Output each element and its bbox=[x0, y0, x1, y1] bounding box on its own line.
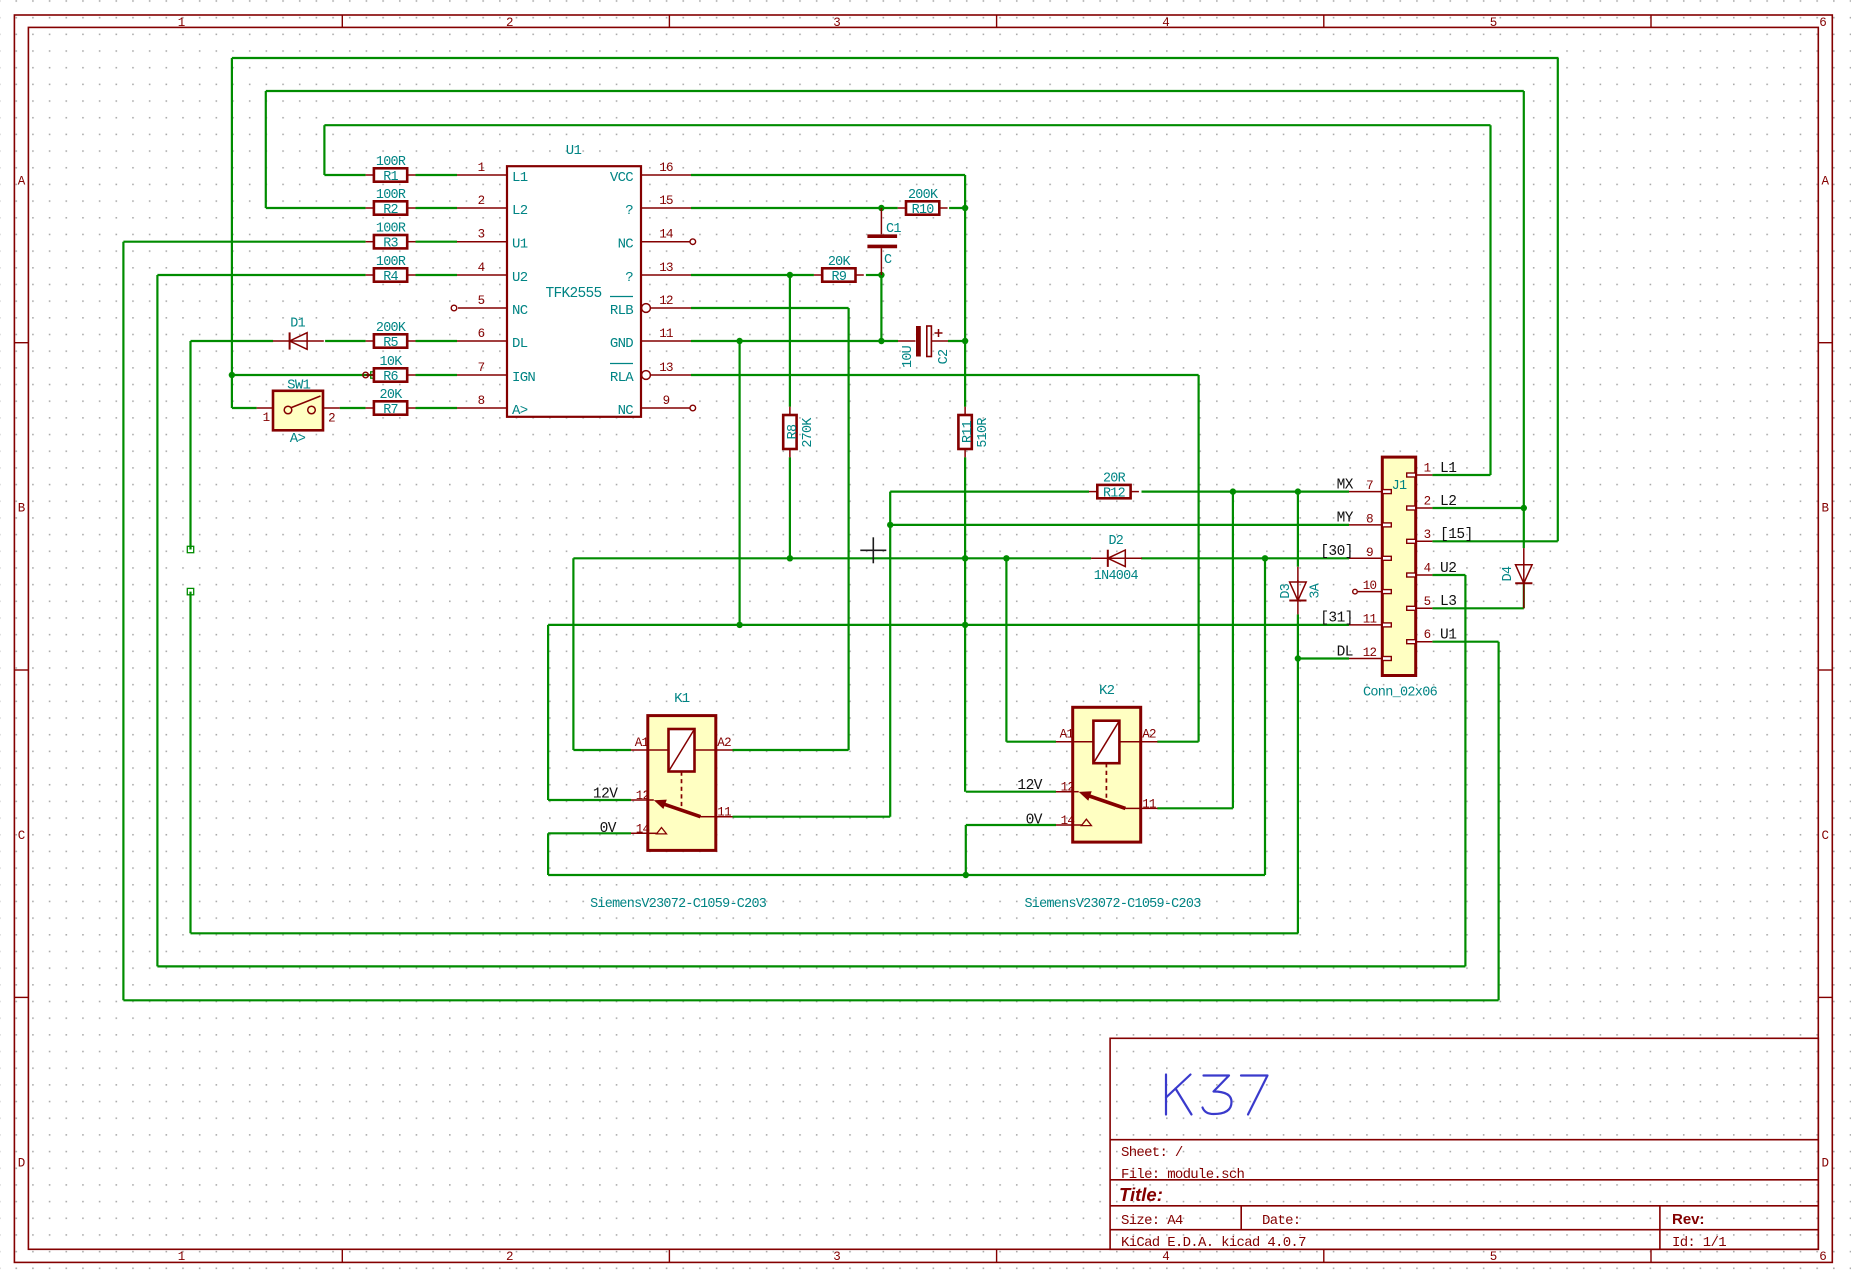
svg-text:12V: 12V bbox=[1017, 778, 1042, 794]
svg-text:A>: A> bbox=[290, 431, 306, 447]
wire vert R8 bottom bbox=[789, 457, 791, 558]
svg-text:14: 14 bbox=[659, 228, 673, 242]
svg-text:16: 16 bbox=[659, 161, 673, 175]
dangling wire end bbox=[371, 372, 377, 378]
svg-text:B: B bbox=[18, 502, 26, 516]
wire MY bbox=[890, 524, 1349, 526]
wire GND to C2 bbox=[691, 340, 898, 342]
svg-text:Sheet: /: Sheet: / bbox=[1121, 1145, 1183, 1161]
svg-text:SW1: SW1 bbox=[287, 378, 310, 394]
resistor R8 bbox=[789, 407, 791, 415]
relay K2 bbox=[1073, 707, 1141, 842]
svg-text:1: 1 bbox=[178, 1250, 186, 1264]
svg-text:7: 7 bbox=[478, 361, 485, 375]
svg-text:200K: 200K bbox=[908, 188, 939, 203]
J1 pin 11 bbox=[1349, 624, 1382, 626]
resistor R6 bbox=[366, 374, 374, 376]
J1 pin 8 bbox=[1349, 524, 1382, 526]
U1 pin 4 U2 bbox=[457, 274, 507, 276]
wire vert 30 to K1.A1 bbox=[572, 558, 574, 750]
wire vert R4 col bbox=[156, 275, 158, 966]
svg-text:File: module.sch: File: module.sch bbox=[1121, 1167, 1245, 1183]
wire vert R9 junction to GND bbox=[880, 275, 882, 341]
svg-text:R5: R5 bbox=[383, 336, 398, 351]
wire DL to J1.12 bbox=[1298, 657, 1349, 659]
junction at 1297.9,658.5 bbox=[1295, 655, 1301, 661]
svg-text:12: 12 bbox=[659, 294, 673, 308]
wire L1 top bbox=[324, 124, 1490, 126]
wire VCC bbox=[691, 174, 965, 176]
svg-text:3A: 3A bbox=[1308, 582, 1323, 598]
svg-text:5: 5 bbox=[1424, 595, 1431, 609]
svg-text:200K: 200K bbox=[376, 321, 407, 336]
svg-text:11: 11 bbox=[659, 327, 673, 341]
resistor R4 bbox=[366, 274, 374, 276]
wire K1.14 bbox=[548, 832, 631, 834]
J1 pin 6 bbox=[1416, 641, 1433, 643]
wire DL bottom bus bbox=[191, 932, 1299, 934]
diode D1 bbox=[273, 340, 324, 342]
svg-text:R9: R9 bbox=[832, 270, 847, 285]
svg-text:2: 2 bbox=[478, 194, 485, 208]
svg-text:K2: K2 bbox=[1099, 683, 1115, 699]
wire MX to R12 bbox=[890, 491, 1089, 493]
svg-text:4: 4 bbox=[1162, 16, 1170, 30]
svg-text:11: 11 bbox=[1142, 797, 1156, 811]
svg-text:3: 3 bbox=[1424, 528, 1431, 542]
wire K1.12 bbox=[548, 799, 631, 801]
wire vert R2 col bbox=[265, 91, 267, 208]
svg-text:U2: U2 bbox=[1440, 561, 1456, 577]
svg-text:11: 11 bbox=[1363, 612, 1377, 626]
U1 pin 1 L1 bbox=[457, 174, 507, 176]
wire vert MX to K2.11 bbox=[1232, 492, 1234, 809]
svg-text:3: 3 bbox=[478, 228, 485, 242]
svg-text:C: C bbox=[18, 829, 26, 843]
svg-text:R10: R10 bbox=[912, 203, 935, 218]
wire R12 to J1.7 bbox=[1142, 491, 1350, 493]
svg-text:4: 4 bbox=[1162, 1250, 1170, 1264]
wire vert net15 col bbox=[1557, 58, 1559, 541]
svg-text:KiCad E.D.A. kicad 4.0.7: KiCad E.D.A. kicad 4.0.7 bbox=[1121, 1235, 1306, 1251]
svg-text:20K: 20K bbox=[828, 255, 852, 270]
D4 pin stubs bbox=[1523, 548, 1525, 565]
wire 0V bus bbox=[548, 874, 1265, 876]
wire net15 top bbox=[232, 57, 1559, 59]
wire 30 row left bbox=[573, 557, 1091, 559]
wire K2.12 bbox=[966, 791, 1056, 793]
wire vert to R8 top bbox=[789, 275, 791, 407]
junction at 231.9,375 bbox=[229, 372, 235, 378]
wire vert GND to 31 row bbox=[738, 341, 740, 625]
J1 pin 4 bbox=[1416, 574, 1433, 576]
wire K2.A1 bbox=[1006, 741, 1056, 743]
diode D3 bbox=[1297, 580, 1299, 601]
wire R7 to U1.8 bbox=[416, 407, 458, 409]
wire vert VCC-R10-GND-R11 bbox=[964, 175, 966, 407]
wire vert 30 to K2.A1 bbox=[1005, 558, 1007, 741]
U1 pin 7 IGN bbox=[457, 374, 507, 376]
svg-text:1: 1 bbox=[178, 16, 186, 30]
svg-text:DL: DL bbox=[1337, 644, 1353, 660]
wire vert R3 col bbox=[122, 242, 124, 1001]
K1 coil bbox=[669, 729, 695, 772]
svg-text:270K: 270K bbox=[801, 417, 816, 448]
svg-text:6: 6 bbox=[1819, 16, 1827, 30]
svg-text:12V: 12V bbox=[593, 786, 618, 802]
svg-text:5: 5 bbox=[1490, 1250, 1498, 1264]
svg-text:8: 8 bbox=[1366, 512, 1373, 526]
wire vert R11 to K2.12 bbox=[964, 457, 966, 791]
svg-text:Id: 1/1: Id: 1/1 bbox=[1672, 1235, 1726, 1251]
svg-text:4: 4 bbox=[1424, 562, 1431, 576]
svg-text:100R: 100R bbox=[376, 255, 406, 270]
svg-text:3: 3 bbox=[833, 16, 841, 30]
svg-text:10U: 10U bbox=[901, 345, 916, 368]
svg-text:SiemensV23072-C1059-C203: SiemensV23072-C1059-C203 bbox=[590, 897, 767, 912]
U1 pin 5 NC bbox=[458, 307, 507, 309]
svg-text:15: 15 bbox=[659, 194, 673, 208]
junction at 739.6,624.9 bbox=[736, 622, 742, 628]
wire vert R1 col bbox=[323, 125, 325, 175]
crosshair marker bbox=[860, 537, 886, 563]
D3 pin stubs bbox=[1297, 567, 1299, 582]
svg-text:L1: L1 bbox=[1440, 461, 1456, 477]
wire R1 to U1.1 bbox=[416, 174, 458, 176]
wire vert RLA to K2.A2 bbox=[1197, 375, 1199, 742]
diode D2 bbox=[1091, 557, 1142, 559]
svg-text:100R: 100R bbox=[376, 222, 406, 237]
wire R4 to U1.4 bbox=[416, 274, 458, 276]
wire K1.A2 bbox=[733, 749, 849, 751]
U1 pin 11 GND bbox=[641, 340, 691, 342]
wire 30 row right bbox=[1141, 557, 1349, 559]
wire vert MX to D3 bbox=[1297, 492, 1299, 567]
junction at 789.9,558.3 bbox=[787, 555, 793, 561]
svg-text:C2: C2 bbox=[937, 349, 952, 364]
svg-text:2: 2 bbox=[506, 1250, 514, 1264]
wire L1 to J1.1 bbox=[1432, 474, 1490, 476]
svg-text:9: 9 bbox=[663, 394, 670, 408]
resistor R3 bbox=[366, 241, 374, 243]
svg-text:R4: R4 bbox=[383, 270, 398, 285]
svg-text:D4: D4 bbox=[1501, 566, 1516, 581]
resistor R2 bbox=[366, 207, 374, 209]
svg-text:3: 3 bbox=[833, 1250, 841, 1264]
svg-text:5: 5 bbox=[1490, 16, 1498, 30]
wire U1net to J1.6 bbox=[1432, 641, 1498, 643]
wire vert K1.14 to 0V bbox=[547, 833, 549, 875]
junction at 881.4,208 bbox=[878, 205, 884, 211]
wire R2 to U1.2 bbox=[416, 207, 458, 209]
junction at 1006.4,558.3 bbox=[1003, 555, 1009, 561]
svg-text:R2: R2 bbox=[383, 203, 398, 218]
svg-text:7: 7 bbox=[1366, 479, 1373, 493]
svg-text:R11: R11 bbox=[961, 420, 976, 443]
junction at 881.4,275 bbox=[878, 272, 884, 278]
op-amp / IC U1 TFK2555 bbox=[507, 166, 641, 417]
wire 15net to J1.3 bbox=[1432, 540, 1557, 542]
svg-text:C: C bbox=[884, 253, 892, 268]
capacitor C1 bbox=[880, 208, 882, 234]
svg-text:20R: 20R bbox=[1103, 472, 1126, 487]
svg-text:R3: R3 bbox=[383, 237, 398, 252]
svg-text:13: 13 bbox=[659, 361, 673, 375]
J1 pin 1 bbox=[1416, 474, 1433, 476]
wire K2.A2 bbox=[1157, 741, 1198, 743]
svg-text:NC: NC bbox=[618, 237, 634, 253]
J1 pin 12 bbox=[1349, 658, 1382, 660]
svg-text:SiemensV23072-C1059-C203: SiemensV23072-C1059-C203 bbox=[1024, 897, 1201, 912]
wire RLB bbox=[691, 307, 849, 309]
wire L3 to J1.5 bbox=[1432, 607, 1523, 609]
svg-text:10K: 10K bbox=[380, 355, 404, 370]
wire K1.11 bbox=[733, 816, 891, 818]
svg-text:B: B bbox=[1822, 502, 1830, 516]
wire vert D1 col upper bbox=[189, 341, 191, 550]
resistor R10 bbox=[898, 207, 906, 209]
svg-text:L1: L1 bbox=[512, 170, 528, 186]
svg-text:D3: D3 bbox=[1279, 583, 1294, 598]
svg-text:100R: 100R bbox=[376, 188, 406, 203]
wire vert U2 col bbox=[1464, 575, 1466, 966]
wire U1.15 to R10 bbox=[691, 207, 898, 209]
wire 31 row bbox=[548, 624, 1349, 626]
wire to SW1.1 bbox=[232, 407, 257, 409]
title text K37 bbox=[1166, 1075, 1268, 1115]
wire D1 to R5 bbox=[325, 340, 366, 342]
wire U2 to J1.4 bbox=[1432, 574, 1465, 576]
svg-text:GND: GND bbox=[610, 336, 633, 352]
resistor R7 bbox=[366, 407, 374, 409]
resistor R11 bbox=[964, 407, 966, 415]
diode D4 bbox=[1523, 563, 1525, 584]
svg-text:100R: 100R bbox=[376, 155, 406, 170]
J1 pin 9 bbox=[1349, 557, 1382, 559]
wire K1.A1 bbox=[573, 749, 631, 751]
U1 pin 15 ? bbox=[641, 207, 691, 209]
wire U2 bottom bus bbox=[157, 965, 1465, 967]
svg-text:9: 9 bbox=[1366, 546, 1373, 560]
junction at 789.9,275 bbox=[787, 272, 793, 278]
wire K2.11 bbox=[1157, 807, 1233, 809]
R6 dangling pin circle bbox=[363, 372, 369, 378]
wire DL to D1 bbox=[191, 340, 274, 342]
svg-text:VCC: VCC bbox=[610, 170, 633, 186]
wire vert L1 col bbox=[1489, 125, 1491, 475]
svg-text:8: 8 bbox=[478, 394, 485, 408]
wire R3 to U1.3 bbox=[416, 241, 458, 243]
wire R2 left bbox=[266, 207, 366, 209]
wire vert D3 to DL col bbox=[1297, 614, 1299, 933]
svg-text:1N4004: 1N4004 bbox=[1094, 569, 1139, 584]
svg-text:A1: A1 bbox=[635, 736, 649, 750]
svg-text:L2: L2 bbox=[512, 203, 528, 219]
wire R4 left bbox=[157, 274, 365, 276]
svg-text:12: 12 bbox=[1363, 646, 1377, 660]
svg-text:1: 1 bbox=[1424, 462, 1431, 476]
junction at 1523.8,508 bbox=[1521, 505, 1527, 511]
svg-text:Rev:: Rev: bbox=[1672, 1211, 1705, 1228]
wire vert 31 to K1.12 bbox=[547, 625, 549, 800]
svg-text:NC: NC bbox=[618, 403, 634, 419]
J1 pin 3 bbox=[1416, 540, 1433, 542]
svg-text:[30]: [30] bbox=[1320, 544, 1353, 560]
svg-text:D1: D1 bbox=[290, 317, 305, 332]
svg-text:NC: NC bbox=[512, 303, 528, 319]
junction at 965.1,208 bbox=[962, 205, 968, 211]
U1 pin 9 NC bbox=[641, 407, 690, 409]
resistor R12 bbox=[1089, 491, 1097, 493]
wire R6 left bbox=[232, 374, 374, 376]
wire RLA bbox=[691, 374, 1199, 376]
K1 armature bbox=[663, 804, 701, 817]
junction at 1265,558.3 bbox=[1262, 555, 1268, 561]
svg-text:510R: 510R bbox=[976, 418, 991, 448]
svg-text:R8: R8 bbox=[786, 424, 801, 439]
svg-text:1: 1 bbox=[263, 411, 270, 425]
U1 pin 13 RLA bbox=[642, 371, 651, 380]
U1 pin 3 U1 bbox=[457, 241, 507, 243]
wire SW1.2 to R7 bbox=[340, 407, 366, 409]
svg-text:R7: R7 bbox=[383, 403, 398, 418]
resistor R1 bbox=[366, 174, 374, 176]
U1 pin 13 ? bbox=[641, 274, 691, 276]
svg-text:L2: L2 bbox=[1440, 494, 1456, 510]
svg-text:TFK2555: TFK2555 bbox=[545, 286, 601, 302]
K2 armature bbox=[1088, 796, 1126, 809]
U1 pin 8 A> bbox=[457, 407, 507, 409]
wire R6 to U1.7 bbox=[416, 374, 458, 376]
svg-text:0V: 0V bbox=[600, 821, 617, 837]
svg-text:U1: U1 bbox=[566, 143, 582, 159]
svg-text:?: ? bbox=[625, 270, 633, 286]
wire vert U1net col bbox=[1497, 642, 1499, 1001]
wire vert K1.11 col bbox=[889, 492, 891, 817]
svg-text:A2: A2 bbox=[1142, 728, 1156, 742]
wire L2 top bbox=[266, 90, 1524, 92]
svg-text:U1: U1 bbox=[1440, 628, 1456, 644]
svg-text:2: 2 bbox=[506, 16, 514, 30]
svg-text:20K: 20K bbox=[380, 388, 404, 403]
wire vert 30 to 0V bus bbox=[1264, 558, 1266, 875]
svg-text:L3: L3 bbox=[1440, 594, 1456, 610]
svg-text:A: A bbox=[18, 175, 26, 189]
svg-text:RLA: RLA bbox=[610, 370, 634, 386]
svg-text:R12: R12 bbox=[1103, 487, 1126, 502]
svg-text:MX: MX bbox=[1337, 477, 1354, 493]
U1 pin 2 L2 bbox=[457, 207, 507, 209]
svg-text:J1: J1 bbox=[1392, 479, 1407, 494]
dangling wire end bbox=[187, 546, 193, 552]
svg-text:Date:: Date: bbox=[1262, 1213, 1301, 1229]
svg-text:A1: A1 bbox=[1060, 728, 1074, 742]
svg-text:DL: DL bbox=[512, 336, 528, 352]
wire K2.14 bbox=[966, 824, 1056, 826]
wire R5 to U1.6 bbox=[416, 340, 458, 342]
svg-text:4: 4 bbox=[478, 261, 485, 275]
svg-text:6: 6 bbox=[1819, 1250, 1827, 1264]
svg-text:C: C bbox=[1822, 829, 1830, 843]
title block bbox=[1110, 1038, 1818, 1249]
relay K1 bbox=[648, 716, 716, 851]
svg-text:K1: K1 bbox=[674, 691, 690, 707]
connector J1 Conn_02x06 bbox=[1382, 457, 1415, 675]
svg-text:13: 13 bbox=[659, 261, 673, 275]
svg-text:12: 12 bbox=[1061, 781, 1075, 795]
wire R10 right bbox=[949, 207, 965, 209]
J1 pin 7 bbox=[1349, 491, 1382, 493]
J1 pin 10 bbox=[1358, 591, 1382, 593]
junction at 1297.9,491.6 bbox=[1295, 488, 1301, 494]
junction at 965.8,875 bbox=[963, 872, 969, 878]
wire vert L2 to D4 bbox=[1523, 91, 1525, 548]
svg-text:Title:: Title: bbox=[1119, 1184, 1163, 1205]
svg-text:R1: R1 bbox=[383, 170, 398, 185]
svg-text:R6: R6 bbox=[383, 370, 398, 385]
wire vert RLB to K1.A2 bbox=[847, 308, 849, 750]
wire vert SW1 col bbox=[231, 58, 233, 408]
wire vert D4 to L3 bbox=[1523, 583, 1525, 608]
U1 pin 12 RLB bbox=[642, 304, 651, 313]
svg-text:[15]: [15] bbox=[1440, 527, 1473, 543]
U1 pin 16 VCC bbox=[641, 174, 691, 176]
J1 pin 5 bbox=[1416, 607, 1433, 609]
svg-text:[31]: [31] bbox=[1320, 611, 1353, 627]
svg-text:D: D bbox=[1822, 1156, 1830, 1170]
svg-text:11: 11 bbox=[717, 806, 731, 820]
svg-text:6: 6 bbox=[478, 327, 485, 341]
junction at 965.1,558.3 bbox=[962, 555, 968, 561]
wire R3 left bbox=[123, 241, 365, 243]
svg-text:5: 5 bbox=[478, 294, 485, 308]
svg-text:RLB: RLB bbox=[610, 303, 633, 319]
svg-text:D: D bbox=[18, 1156, 26, 1170]
junction at 739.6,341 bbox=[736, 338, 742, 344]
svg-text:10: 10 bbox=[1363, 579, 1377, 593]
svg-text:0V: 0V bbox=[1026, 813, 1043, 829]
U1 pin 14 NC bbox=[641, 241, 690, 243]
wire vert K2.14 to 0V bbox=[965, 825, 967, 875]
svg-text:U2: U2 bbox=[512, 270, 528, 286]
wire L2 to J1.2 bbox=[1432, 507, 1523, 509]
wire U1.13 to R9 bbox=[691, 274, 814, 276]
capacitor C2 polarized bbox=[898, 340, 916, 342]
junction at 890.2,524.9 bbox=[887, 522, 893, 528]
svg-text:2: 2 bbox=[328, 412, 335, 426]
svg-text:14: 14 bbox=[636, 822, 650, 836]
wire C2 right bbox=[948, 340, 965, 342]
resistor R9 bbox=[814, 274, 822, 276]
svg-text:12: 12 bbox=[636, 789, 650, 803]
K2 coil bbox=[1093, 721, 1119, 764]
wire vert D1 col lower bbox=[189, 592, 191, 934]
svg-text:1: 1 bbox=[478, 161, 485, 175]
svg-text:A2: A2 bbox=[717, 736, 731, 750]
U1 pin 6 DL bbox=[457, 340, 507, 342]
svg-text:C1: C1 bbox=[886, 222, 901, 237]
junction at 1232.9,491.6 bbox=[1230, 488, 1236, 494]
svg-text:MY: MY bbox=[1337, 511, 1354, 527]
svg-text:A: A bbox=[1822, 175, 1830, 189]
dangling wire end bbox=[187, 588, 193, 594]
junction at 965.1,624.9 bbox=[962, 622, 968, 628]
svg-text:14: 14 bbox=[1061, 814, 1075, 828]
svg-text:IGN: IGN bbox=[512, 370, 535, 386]
wire R1 left bbox=[324, 174, 365, 176]
junction at 881.4,341 bbox=[878, 338, 884, 344]
svg-text:2: 2 bbox=[1424, 495, 1431, 509]
